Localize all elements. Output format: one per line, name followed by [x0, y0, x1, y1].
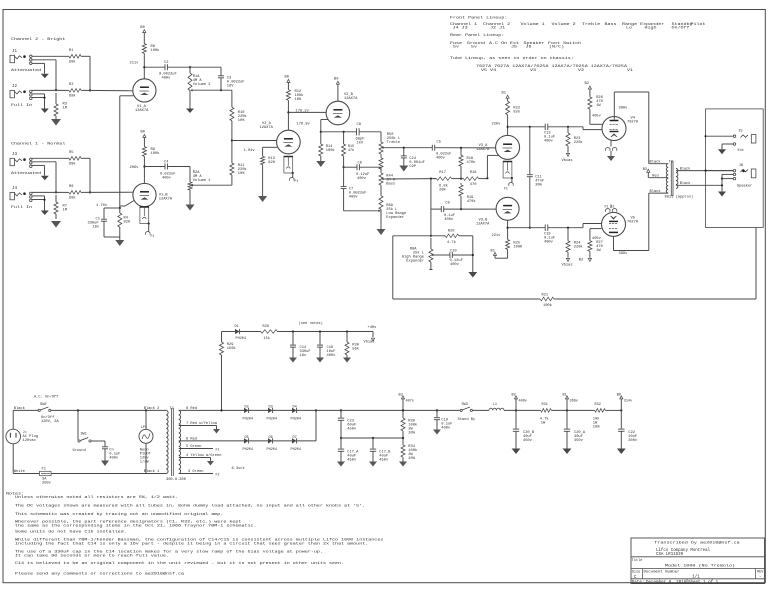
svg-text:250v: 250v [42, 482, 52, 486]
svg-text:Bass: Bass [386, 182, 395, 186]
svg-text:J6: J6 [526, 44, 532, 49]
svg-text:Speaker: Speaker [737, 184, 753, 189]
svg-text:3 Green: 3 Green [188, 470, 204, 474]
svg-text:D3: D3 [269, 405, 273, 409]
svg-text:400v: 400v [357, 177, 367, 181]
svg-text:C14 is believed to be an origi: C14 is believed to be an original compon… [15, 561, 344, 566]
svg-text:7027A: 7027A [627, 221, 639, 225]
svg-text:10%: 10% [238, 172, 245, 176]
svg-text:100k: 100k [151, 48, 161, 53]
svg-text:Lo: Lo [626, 25, 632, 30]
svg-text:400v: 400v [544, 139, 554, 143]
svg-text:V5 V4: V5 V4 [481, 67, 496, 72]
svg-text:F1: F1 [216, 447, 220, 451]
svg-text:1.04v: 1.04v [244, 149, 256, 153]
svg-text:5v: 5v [471, 44, 477, 49]
svg-text:1W: 1W [596, 104, 601, 108]
svg-text:B2: B2 [579, 259, 583, 263]
svg-text:PH204: PH204 [291, 448, 302, 452]
svg-text:12AX7A: 12AX7A [344, 97, 358, 101]
svg-text:300-0-300: 300-0-300 [166, 478, 186, 482]
svg-text:220k: 220k [574, 140, 584, 145]
svg-text:Red: Red [652, 174, 658, 179]
svg-text:Date:: Date: [632, 581, 645, 585]
svg-text:1W: 1W [541, 421, 546, 425]
svg-text:100k: 100k [543, 303, 553, 308]
svg-text:366v: 366v [570, 399, 578, 403]
svg-text:470k: 470k [467, 160, 477, 165]
svg-text:B1: B1 [491, 249, 496, 253]
svg-text:820: 820 [268, 161, 275, 165]
svg-text:C10: C10 [450, 249, 457, 253]
svg-text:V2: V2 [578, 67, 584, 72]
svg-text:150k: 150k [227, 346, 237, 351]
svg-text:White: White [14, 469, 25, 474]
svg-text:400v: 400v [162, 77, 172, 81]
svg-text:PH204: PH204 [267, 448, 278, 452]
svg-text:12AX7A: 12AX7A [260, 126, 274, 130]
svg-text:100k: 100k [326, 148, 336, 153]
svg-text:J6: J6 [739, 164, 743, 168]
svg-text:450v: 450v [379, 458, 389, 462]
svg-text:Unless otherwise noted all res: Unless otherwise noted all resistors are… [15, 494, 178, 499]
svg-text:12AX7A: 12AX7A [476, 222, 490, 226]
svg-text:Model 1000 (No Tremolo): Model 1000 (No Tremolo) [665, 563, 735, 568]
svg-text:+40v: +40v [368, 326, 378, 330]
svg-text:Please send any comments or co: Please send any comments or corrections … [15, 571, 184, 576]
svg-text:D1: D1 [235, 325, 239, 329]
svg-text:V1: V1 [627, 67, 633, 72]
svg-text:J2 J1: J2 J1 [490, 25, 505, 30]
svg-text:4 Yellow w/Green: 4 Yellow w/Green [186, 453, 221, 458]
svg-text:SW2: SW2 [40, 403, 47, 407]
svg-text:100k: 100k [151, 151, 161, 156]
svg-text:Transcribed by ae2918@nsf.ca: Transcribed by ae2918@nsf.ca [654, 540, 740, 545]
svg-text:221v: 221v [492, 234, 502, 238]
svg-text:6 Red: 6 Red [186, 436, 197, 441]
svg-text:Volume 2: Volume 2 [552, 21, 577, 26]
svg-text:10%: 10% [593, 425, 600, 429]
svg-text:400v: 400v [436, 157, 446, 161]
svg-text:1W: 1W [596, 249, 601, 253]
svg-text:R2: R2 [69, 83, 73, 87]
svg-text:F1: F1 [151, 234, 155, 238]
svg-text:Treble: Treble [582, 21, 600, 26]
svg-text:F1 F2: F1 F2 [605, 204, 615, 208]
svg-text:Vbias: Vbias [562, 158, 573, 163]
svg-text:C9P: C9P [409, 165, 416, 169]
svg-text:A.C. On/Off: A.C. On/Off [34, 394, 58, 399]
svg-text:211v: 211v [130, 61, 140, 65]
svg-text:C6: C6 [358, 161, 362, 165]
svg-text:R32: R32 [595, 403, 601, 407]
svg-text:400v: 400v [450, 263, 460, 267]
svg-text:20%: 20% [535, 183, 542, 187]
svg-text:220k: 220k [574, 244, 584, 249]
svg-text:10%: 10% [238, 119, 245, 123]
svg-text:12AX7A: 12AX7A [135, 109, 149, 113]
svg-text:68k: 68k [69, 94, 76, 99]
svg-text:D7: D7 [293, 436, 297, 440]
svg-text:Channel 2 - Bright: Channel 2 - Bright [11, 37, 66, 42]
svg-text:206v: 206v [130, 166, 140, 170]
svg-text:Pilot: Pilot [691, 21, 706, 26]
svg-text:400v: 400v [109, 456, 119, 460]
svg-text:C9: C9 [445, 202, 449, 206]
svg-text:R20: R20 [448, 230, 455, 234]
svg-text:470k: 470k [467, 199, 477, 204]
svg-text:D2: D2 [245, 405, 249, 409]
svg-text:B1: B1 [563, 393, 567, 397]
svg-text:R5: R5 [69, 151, 73, 155]
svg-text:Size: Size [632, 570, 640, 575]
svg-text:D6: D6 [269, 436, 273, 440]
svg-text:Vbias: Vbias [364, 340, 375, 345]
svg-text:10%: 10% [295, 98, 302, 102]
svg-text:(N/C): (N/C) [549, 44, 564, 49]
svg-text:1M: 1M [63, 107, 67, 111]
svg-text:This schematic was created by: This schematic was created by tracing ou… [15, 512, 223, 517]
svg-text:T2: T2 [669, 160, 673, 164]
svg-text:300v: 300v [628, 439, 638, 443]
svg-text:6.3vct: 6.3vct [232, 467, 245, 471]
svg-text:B3: B3 [399, 393, 403, 397]
svg-text:8 Red: 8 Red [186, 406, 197, 411]
svg-text:12AX7A: 12AX7A [159, 197, 173, 201]
svg-text:100K: 100K [513, 245, 523, 249]
svg-text:The DC voltages shown are meas: The DC voltages shown are measured with … [15, 503, 365, 508]
svg-text:Vbias: Vbias [562, 262, 573, 267]
svg-text:400v: 400v [162, 176, 172, 180]
svg-text:1/3W: 1/3W [140, 459, 150, 464]
svg-text:R21: R21 [542, 294, 549, 298]
svg-text:Bass: Bass [605, 21, 617, 26]
svg-text:J1: J1 [12, 50, 18, 54]
svg-text:Tube Lineup, as seen in order: Tube Lineup, as seen in order on chassis… [450, 55, 574, 60]
svg-text:82k: 82k [513, 110, 520, 115]
svg-text:1.70v: 1.70v [96, 204, 108, 208]
svg-text:Sheet 1 of 1: Sheet 1 of 1 [688, 580, 719, 585]
svg-text:20%: 20% [408, 457, 415, 461]
svg-text:Some units do not have C15 ins: Some units do not have C15 installed. [15, 529, 127, 534]
svg-text:47k: 47k [348, 148, 355, 153]
svg-text:16v: 16v [300, 354, 307, 358]
svg-text:PH204: PH204 [236, 337, 247, 341]
svg-text:820: 820 [124, 220, 131, 224]
svg-text:High: High [645, 25, 657, 30]
svg-text:406v: 406v [519, 399, 527, 403]
svg-text:450v: 450v [574, 439, 584, 443]
svg-text:R1: R1 [69, 49, 74, 53]
svg-text:J5: J5 [738, 129, 742, 133]
svg-text:A.C On: A.C On [489, 40, 507, 45]
svg-text:Black: Black [650, 159, 662, 164]
svg-text:L1: L1 [493, 403, 497, 407]
svg-text:PH204: PH204 [291, 418, 302, 422]
svg-text:20%: 20% [439, 188, 446, 192]
svg-text:Black: Black [680, 181, 691, 186]
svg-text:Attenuated: Attenuated [11, 67, 42, 72]
svg-text:Expander: Expander [406, 258, 424, 263]
svg-text:R17: R17 [439, 171, 446, 175]
svg-text:20%: 20% [408, 432, 415, 436]
svg-text:120V, 3A: 120V, 3A [41, 420, 59, 424]
svg-text:Volume 2: Volume 2 [193, 82, 211, 87]
svg-text:470: 470 [470, 183, 477, 187]
svg-text:7027A 7027A 12AX7A/7025A: 7027A 7027A 12AX7A/7025A 12AX7A/7025A 12… [476, 63, 627, 68]
svg-text:Stand By: Stand By [458, 417, 476, 422]
svg-text:5 Green: 5 Green [186, 445, 202, 449]
svg-text:Ground: Ground [73, 448, 86, 453]
svg-text:Ext: Ext [738, 149, 745, 153]
svg-text:4.7k: 4.7k [447, 240, 457, 245]
svg-text:Treble: Treble [387, 140, 400, 145]
svg-text:7027A: 7027A [627, 121, 639, 125]
svg-text:J3: J3 [12, 153, 18, 157]
svg-text:Rear Panel Lineup:: Rear Panel Lineup: [450, 33, 504, 38]
svg-text:16v: 16v [93, 226, 100, 230]
svg-text:J2: J2 [12, 85, 18, 89]
svg-text:B3: B3 [643, 168, 647, 172]
svg-text:68k: 68k [69, 162, 76, 167]
svg-text:C4: C4 [164, 161, 169, 165]
svg-text:(see notes): (see notes) [299, 321, 323, 326]
svg-text:J4 J3: J4 J3 [453, 25, 468, 30]
svg-text:C5: C5 [437, 141, 441, 145]
svg-text:450v: 450v [347, 458, 357, 462]
svg-text:400v: 400v [444, 218, 454, 222]
svg-text:Attenuated: Attenuated [11, 170, 42, 175]
svg-text:including the fact that C14 is: including the fact that C14 is only a 16… [15, 541, 368, 546]
svg-text:F1: F1 [504, 186, 508, 190]
svg-text:December 9, 2016: December 9, 2016 [646, 580, 687, 585]
svg-text:F2: F2 [216, 472, 220, 476]
svg-text:8011 (approx): 8011 (approx) [665, 195, 694, 200]
svg-text:F1: F1 [42, 467, 47, 471]
svg-text:120vac: 120vac [23, 439, 36, 443]
svg-text:450v: 450v [523, 439, 533, 443]
svg-text:56k: 56k [352, 346, 359, 351]
svg-text:C2: C2 [164, 61, 168, 65]
svg-text:D5: D5 [245, 436, 249, 440]
svg-text:B1: B1 [502, 91, 507, 95]
svg-text:PH204: PH204 [267, 418, 278, 422]
svg-text:B2: B2 [585, 82, 589, 86]
svg-text:V3: V3 [530, 67, 536, 72]
svg-text:the same as the corresponding: the same as the corresponding items in t… [15, 523, 257, 528]
svg-text:Document Number: Document Number [644, 570, 681, 575]
svg-text:400v: 400v [327, 354, 337, 358]
svg-text:12AX7A: 12AX7A [476, 148, 490, 152]
svg-text:PH204: PH204 [243, 448, 254, 452]
svg-text:399v: 399v [619, 252, 629, 256]
svg-text:314v: 314v [624, 399, 632, 403]
svg-text:R6: R6 [69, 185, 73, 189]
svg-text:220v: 220v [492, 123, 502, 127]
svg-text:400v: 400v [544, 240, 554, 244]
svg-text:176.9v: 176.9v [297, 123, 311, 127]
svg-text:Black: Black [14, 406, 26, 411]
svg-text:68k: 68k [69, 60, 76, 65]
svg-text:Full In: Full In [11, 102, 32, 107]
svg-text:5v: 5v [453, 44, 459, 49]
svg-text:407v: 407v [406, 399, 414, 403]
svg-text:Title: Title [632, 558, 643, 563]
svg-text:1kV: 1kV [357, 140, 364, 145]
svg-text:400v: 400v [441, 427, 451, 431]
svg-text:On/Off: On/Off [672, 25, 690, 30]
svg-text:Volume 1: Volume 1 [521, 21, 546, 26]
svg-text:B0: B0 [617, 393, 621, 397]
svg-text:Black: Black [680, 167, 691, 172]
svg-text:Channel 1 - Normal: Channel 1 - Normal [11, 141, 66, 146]
svg-text:J4: J4 [12, 187, 18, 191]
svg-text:B2: B2 [512, 393, 516, 397]
svg-text:Expander: Expander [386, 215, 404, 220]
svg-text:Front Panel Lineup:: Front Panel Lineup: [450, 15, 507, 20]
svg-text:J5: J5 [511, 44, 517, 49]
svg-text:C8: C8 [357, 123, 361, 127]
svg-text:R18: R18 [470, 171, 477, 175]
svg-text:1M: 1M [63, 209, 67, 213]
svg-text:SW1: SW1 [81, 432, 87, 436]
svg-text:REV: REV [757, 571, 764, 575]
svg-text:450v: 450v [347, 427, 357, 431]
svg-text:T1: T1 [170, 407, 175, 411]
svg-text:15k: 15k [264, 336, 270, 341]
svg-text:R31: R31 [542, 403, 548, 407]
svg-text:16V: 16V [227, 84, 234, 88]
svg-text:F1: F1 [295, 179, 299, 183]
svg-text:PH204: PH204 [243, 418, 254, 422]
svg-text:Volume 1: Volume 1 [193, 178, 211, 183]
svg-text:7 Red w/Yellow: 7 Red w/Yellow [186, 421, 218, 426]
svg-text:Full In: Full In [11, 204, 32, 209]
svg-text:D4: D4 [293, 405, 297, 409]
svg-text:LP1: LP1 [141, 426, 147, 430]
svg-text:399v: 399v [619, 107, 629, 111]
svg-text:It can take 90 seconds or more: It can take 90 seconds or more to reach … [15, 553, 169, 558]
svg-text:Black: Black [650, 189, 662, 194]
svg-text:68k: 68k [69, 196, 76, 201]
svg-text:400v: 400v [349, 196, 359, 200]
svg-text:R28: R28 [263, 325, 269, 329]
svg-text:405v: 405v [592, 114, 602, 118]
svg-text:SW3: SW3 [462, 403, 468, 407]
